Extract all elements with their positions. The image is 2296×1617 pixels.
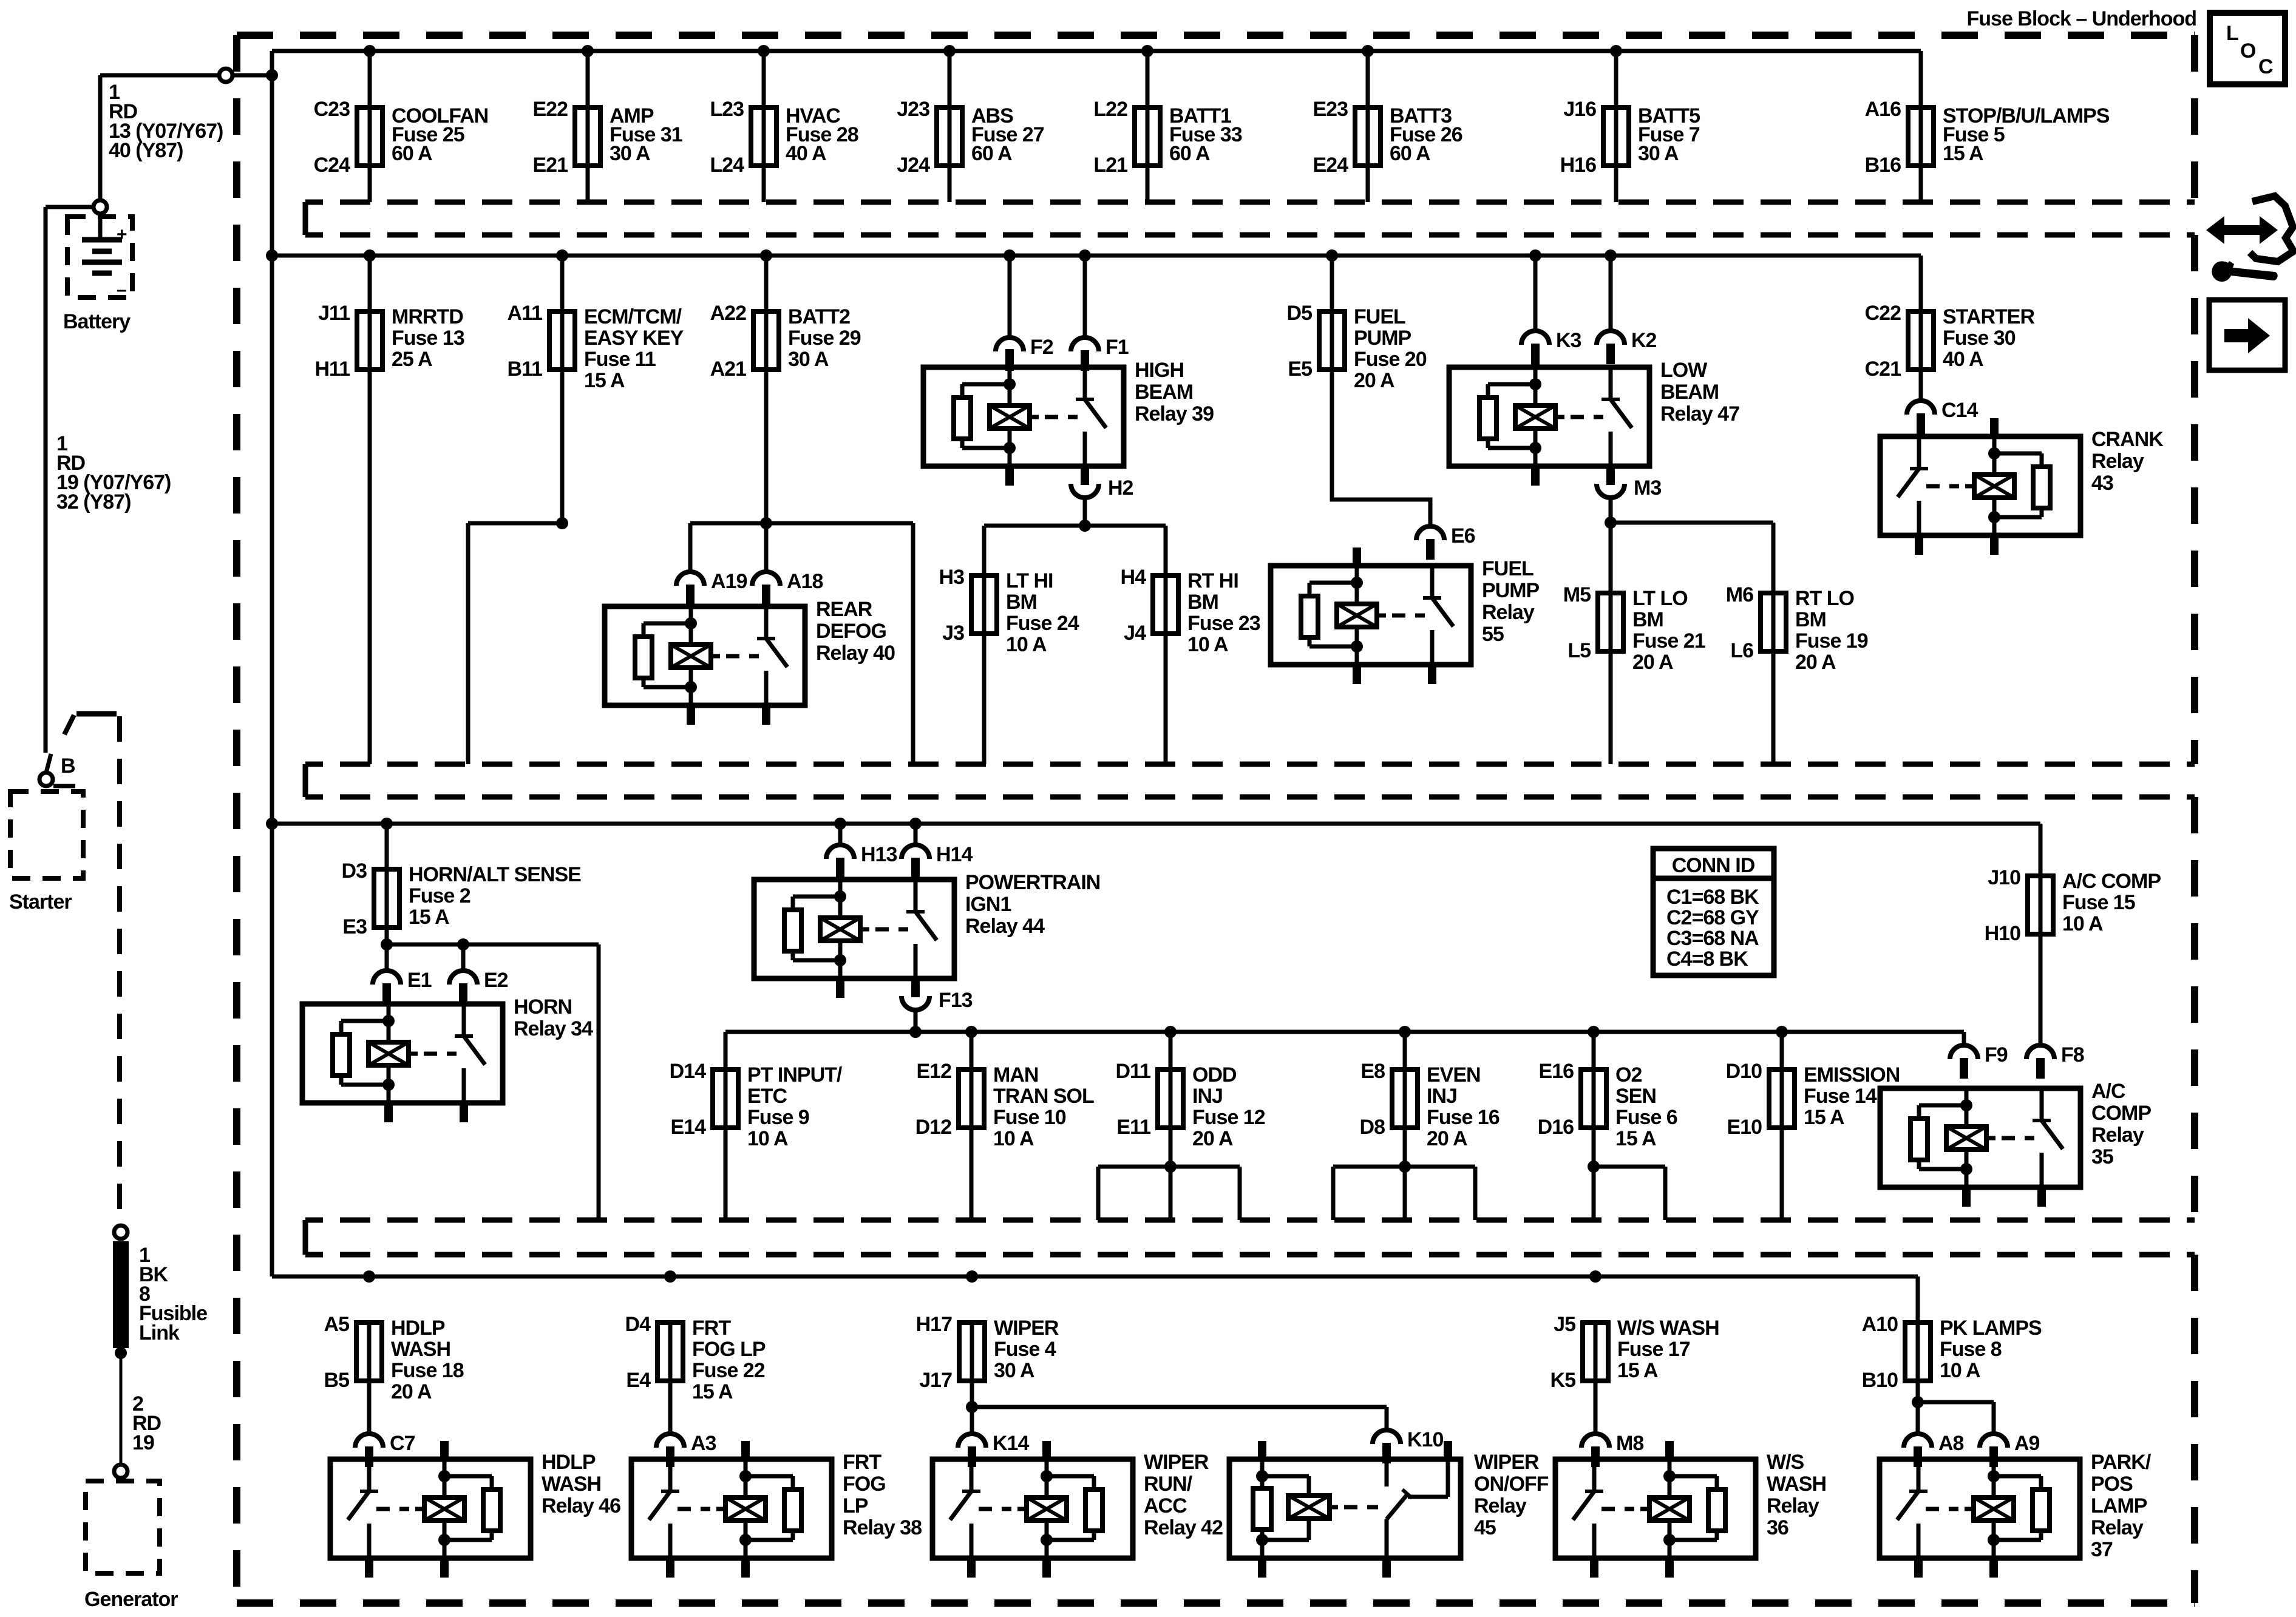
svg-text:Fuse 11: Fuse 11 xyxy=(584,348,656,371)
svg-text:TRAN SOL: TRAN SOL xyxy=(993,1085,1094,1108)
node bus2 x609 xyxy=(364,249,376,262)
svg-text:Fuse Block – Underhood: Fuse Block – Underhood xyxy=(1967,7,2197,30)
relay HORN Relay 34 xyxy=(302,995,593,1122)
connector F8 xyxy=(2026,1043,2084,1079)
connector A3 xyxy=(656,1432,716,1467)
wire EVEN INJ multi-terminal output xyxy=(1333,1128,1475,1220)
svg-text:40 (Y87): 40 (Y87) xyxy=(109,139,183,162)
svg-text:F9: F9 xyxy=(1985,1043,2008,1066)
svg-text:HDLP: HDLP xyxy=(391,1317,445,1340)
generator terminal xyxy=(114,1465,127,1478)
fuse Fuse 12 ODD INJ (D11/E11) xyxy=(1116,1032,1265,1150)
svg-text:J5: J5 xyxy=(1554,1313,1575,1336)
connector H14 xyxy=(902,843,973,878)
fuse Fuse 33 BATT1 (L22/L21) xyxy=(1093,51,1241,202)
fuse Fuse 27 ABS (J23/J24) xyxy=(897,51,1044,202)
node bus4 x608 xyxy=(363,1270,375,1283)
svg-text:H10: H10 xyxy=(1985,922,2020,945)
fuse Fuse 28 HVAC (L23/L24) xyxy=(710,51,858,202)
svg-text:15 A: 15 A xyxy=(409,906,449,929)
svg-text:E12: E12 xyxy=(917,1060,952,1083)
dashed bus band band 2 xyxy=(305,764,2195,797)
svg-text:Fuse 29: Fuse 29 xyxy=(788,327,861,350)
svg-text:Relay: Relay xyxy=(1482,601,1535,624)
node bus2 x1663 xyxy=(1004,249,1016,262)
svg-text:+: + xyxy=(117,225,127,245)
svg-text:ON/OFF: ON/OFF xyxy=(1474,1473,1549,1496)
svg-text:C14: C14 xyxy=(1941,399,1978,422)
fuse Fuse 23 RT HI BM (H4/J4) xyxy=(1121,566,1260,764)
relay PARK/POS LAMP Relay 37 xyxy=(1880,1451,2152,1578)
svg-text:WASH: WASH xyxy=(1767,1473,1826,1496)
svg-text:Fuse 13: Fuse 13 xyxy=(392,327,464,350)
svg-text:L21: L21 xyxy=(1093,154,1127,177)
svg-text:C: C xyxy=(2258,55,2273,78)
svg-text:LAMP: LAMP xyxy=(2091,1494,2147,1517)
node bus1 x1890 xyxy=(1141,45,1153,57)
svg-text:FOG LP: FOG LP xyxy=(692,1338,766,1361)
node bus4 x1601 xyxy=(966,1270,978,1283)
connector E6 xyxy=(1416,524,1475,560)
svg-text:FUEL: FUEL xyxy=(1354,305,1405,328)
relay HDLP WASH Relay 46 xyxy=(330,1441,620,1578)
svg-text:PT INPUT/: PT INPUT/ xyxy=(747,1063,843,1086)
svg-text:D16: D16 xyxy=(1538,1116,1574,1139)
svg-text:Relay 47: Relay 47 xyxy=(1660,402,1739,425)
svg-text:E1: E1 xyxy=(407,969,432,992)
svg-text:Relay: Relay xyxy=(2091,450,2144,473)
svg-text:D10: D10 xyxy=(1726,1060,1762,1083)
node bus1 x609 xyxy=(364,45,376,57)
svg-text:A18: A18 xyxy=(787,570,823,593)
wire BATT2 output distribution xyxy=(690,370,913,764)
svg-text:D12: D12 xyxy=(915,1116,951,1139)
svg-text:A10: A10 xyxy=(1862,1313,1898,1336)
svg-text:Relay 42: Relay 42 xyxy=(1144,1516,1223,1539)
fuse Fuse 29 BATT2 (A22/A21) xyxy=(710,256,861,381)
svg-text:30 A: 30 A xyxy=(788,348,829,371)
connector M8 xyxy=(1581,1432,1643,1467)
wire bus3 to H13/H14 xyxy=(840,824,915,845)
node bus3b x1508 xyxy=(909,1026,922,1038)
svg-text:10 A: 10 A xyxy=(747,1127,788,1150)
fusible link terminal xyxy=(114,1225,127,1239)
svg-text:ACC: ACC xyxy=(1144,1494,1187,1517)
wire A/C comp fuse to F8 xyxy=(2039,934,2043,1045)
wire label 1 RD 13/40 xyxy=(109,81,223,162)
svg-text:10 A: 10 A xyxy=(1940,1359,1980,1382)
svg-text:60 A: 60 A xyxy=(392,142,432,165)
svg-text:Fuse 15: Fuse 15 xyxy=(2062,891,2135,914)
fuse Fuse 5 STOP/B/U/LAMPS (A16/B16) xyxy=(1865,51,2110,202)
svg-text:PUMP: PUMP xyxy=(1354,327,1411,350)
svg-text:Fuse 16: Fuse 16 xyxy=(1427,1106,1500,1129)
svg-text:BEAM: BEAM xyxy=(1660,381,1719,404)
connector M3 xyxy=(1597,464,1661,500)
node bus2 left xyxy=(266,249,278,262)
svg-text:CRANK: CRANK xyxy=(2091,428,2164,451)
fuse Fuse 8 PK LAMPS (A10/B10) xyxy=(1862,1313,2042,1392)
node ODD INJ split xyxy=(1164,1161,1177,1173)
svg-text:A21: A21 xyxy=(710,358,746,381)
svg-text:E6: E6 xyxy=(1451,524,1475,547)
main feed vertical xyxy=(270,51,274,1276)
svg-text:HIGH: HIGH xyxy=(1135,359,1184,382)
svg-text:O2: O2 xyxy=(1615,1063,1642,1086)
generator xyxy=(84,1481,178,1611)
svg-text:MAN: MAN xyxy=(993,1063,1038,1086)
dashed bus band band 1 xyxy=(305,202,2195,235)
CONN ID table xyxy=(1653,849,1774,975)
wire M3 output to low beam fuses xyxy=(1611,498,1773,593)
fuse Fuse 26 BATT3 (E23/E24) xyxy=(1313,51,1462,202)
connector K2 xyxy=(1597,329,1657,364)
svg-text:E16: E16 xyxy=(1539,1060,1574,1083)
svg-text:10 A: 10 A xyxy=(993,1127,1034,1150)
svg-text:Fuse 21: Fuse 21 xyxy=(1632,629,1705,653)
svg-text:J16: J16 xyxy=(1563,98,1596,121)
wire battery to bus xyxy=(100,75,272,200)
node fusible link output xyxy=(115,1347,127,1359)
svg-text:Fuse 6: Fuse 6 xyxy=(1615,1106,1677,1129)
svg-text:B10: B10 xyxy=(1862,1369,1898,1392)
svg-text:Fuse 18: Fuse 18 xyxy=(391,1359,464,1382)
svg-text:J3: J3 xyxy=(942,622,964,645)
svg-text:C4=8 BK: C4=8 BK xyxy=(1666,947,1748,971)
relay FUEL PUMP Relay 55 xyxy=(1271,547,1540,684)
svg-text:HDLP: HDLP xyxy=(542,1451,596,1474)
fuse Fuse 7 BATT5 (J16/H16) xyxy=(1560,51,1700,202)
node bus1 x1564 xyxy=(943,45,956,57)
node bus3 x1384 xyxy=(834,818,846,830)
wire O2 SEN multi-terminal output xyxy=(1594,1128,1665,1220)
node battery feed junction xyxy=(266,69,278,81)
node bus2 x1262 xyxy=(760,249,772,262)
svg-text:C23: C23 xyxy=(314,98,350,121)
svg-text:MRRTD: MRRTD xyxy=(392,305,463,328)
fuse Fuse 11 ECM/TCM/EASY KEY (A11/B11) xyxy=(508,256,684,392)
connector F9 xyxy=(1950,1043,2008,1079)
svg-text:30 A: 30 A xyxy=(1638,142,1679,165)
svg-text:Relay: Relay xyxy=(2091,1516,2144,1539)
relay WIPER ON/OFF Relay 45 xyxy=(1229,1441,1549,1578)
svg-text:C2=68 GY: C2=68 GY xyxy=(1666,906,1759,929)
svg-text:15 A: 15 A xyxy=(1615,1127,1656,1150)
svg-text:20 A: 20 A xyxy=(1795,651,1836,674)
svg-text:D8: D8 xyxy=(1360,1116,1385,1139)
svg-text:K2: K2 xyxy=(1631,329,1657,352)
wire ECM fuse output xyxy=(468,370,562,764)
svg-text:10 A: 10 A xyxy=(1006,633,1047,656)
connector K10 xyxy=(1373,1428,1443,1463)
wire label 1 RD 19/32 xyxy=(56,432,171,514)
svg-text:20 A: 20 A xyxy=(1427,1127,1467,1150)
svg-text:D14: D14 xyxy=(670,1060,706,1083)
connector A19 xyxy=(676,570,747,605)
node E2 tap xyxy=(457,938,469,951)
body repair icon with wrench xyxy=(2206,196,2294,282)
fuse Fuse 16 EVEN INJ (E8/D8) xyxy=(1360,1032,1500,1150)
bus 3b ignition feed xyxy=(725,1032,1964,1070)
dashed feed wire to fusible link xyxy=(64,714,120,1218)
svg-text:LP: LP xyxy=(843,1494,868,1517)
svg-text:H2: H2 xyxy=(1108,476,1133,500)
wire bus2 to K3/K2 xyxy=(1535,256,1611,331)
svg-text:A9: A9 xyxy=(2014,1432,2040,1455)
svg-text:LOW: LOW xyxy=(1660,359,1708,382)
node EVEN INJ split xyxy=(1399,1161,1411,1173)
node M3 split xyxy=(1605,517,1617,529)
svg-text:STARTER: STARTER xyxy=(1943,305,2034,328)
svg-text:E11: E11 xyxy=(1116,1116,1150,1139)
svg-text:D4: D4 xyxy=(625,1313,651,1336)
node horn fuse split xyxy=(381,938,393,951)
wire F13 to ignition bus xyxy=(914,1010,918,1032)
svg-text:FOG: FOG xyxy=(843,1473,886,1496)
svg-text:BM: BM xyxy=(1795,608,1826,631)
svg-text:Fuse 24: Fuse 24 xyxy=(1006,612,1079,635)
svg-text:L23: L23 xyxy=(710,98,744,121)
svg-text:Relay: Relay xyxy=(1474,1494,1527,1517)
svg-text:Fuse 22: Fuse 22 xyxy=(692,1359,765,1382)
svg-text:20 A: 20 A xyxy=(391,1380,432,1403)
svg-text:IGN1: IGN1 xyxy=(965,893,1011,916)
svg-text:D11: D11 xyxy=(1116,1060,1151,1083)
node bus2 x926 xyxy=(556,249,568,262)
svg-text:Relay 46: Relay 46 xyxy=(542,1494,620,1517)
svg-text:Fuse 19: Fuse 19 xyxy=(1795,629,1868,653)
relay WIPER RUN/ACC Relay 42 xyxy=(932,1441,1223,1578)
svg-text:WASH: WASH xyxy=(542,1473,601,1496)
svg-text:O: O xyxy=(2240,39,2256,63)
node bus3b x1928 xyxy=(1164,1026,1177,1038)
connector E1 xyxy=(373,969,432,1004)
svg-text:Fuse 17: Fuse 17 xyxy=(1617,1338,1690,1361)
fuse Fuse 6 O2 SEN (E16/D16) xyxy=(1538,1032,1677,1150)
svg-text:30 A: 30 A xyxy=(610,142,650,165)
connector F13 xyxy=(902,977,973,1012)
connector A9 xyxy=(1980,1432,2040,1467)
node bus2 x2653 xyxy=(1605,249,1617,262)
svg-text:H3: H3 xyxy=(939,566,965,589)
svg-text:10 A: 10 A xyxy=(2062,912,2103,935)
relay W/S WASH Relay 36 xyxy=(1555,1441,1826,1578)
svg-text:A5: A5 xyxy=(324,1313,350,1336)
connector K14 xyxy=(958,1432,1029,1467)
svg-text:E23: E23 xyxy=(1313,98,1348,121)
node bus3b x2314 xyxy=(1399,1026,1411,1038)
dashed bus band band 3 xyxy=(305,1220,2195,1255)
svg-text:Fuse 8: Fuse 8 xyxy=(1940,1338,2002,1361)
svg-text:Battery: Battery xyxy=(63,310,131,333)
svg-text:DEFOG: DEFOG xyxy=(816,620,886,643)
svg-text:POS: POS xyxy=(2091,1473,2133,1496)
fuse Fuse 14 EMISSION (D10/E10) xyxy=(1726,1032,1900,1220)
battery positive terminal xyxy=(93,200,107,214)
fuse Fuse 22 FRT FOG LP (D4/E4) xyxy=(625,1313,766,1434)
connector C14 xyxy=(1907,399,1978,434)
inline connector on battery feed xyxy=(219,69,233,82)
svg-text:E4: E4 xyxy=(626,1369,651,1392)
svg-text:M6: M6 xyxy=(1726,583,1753,606)
svg-text:E22: E22 xyxy=(533,98,568,121)
fuse Fuse 18 HDLP WASH (A5/B5) xyxy=(324,1313,464,1434)
node bus1 x968 xyxy=(582,45,594,57)
svg-text:Starter: Starter xyxy=(9,890,72,914)
svg-text:B5: B5 xyxy=(324,1369,350,1392)
svg-text:K10: K10 xyxy=(1407,1428,1443,1451)
svg-text:WIPER: WIPER xyxy=(1474,1451,1539,1474)
svg-text:EVEN: EVEN xyxy=(1427,1063,1481,1086)
svg-text:LT LO: LT LO xyxy=(1632,587,1688,610)
wire wiper fuse output xyxy=(972,1381,1387,1434)
bus 4 xyxy=(272,1276,1918,1323)
svg-text:WIPER: WIPER xyxy=(994,1317,1059,1340)
svg-text:J4: J4 xyxy=(1124,622,1146,645)
svg-text:RT HI: RT HI xyxy=(1187,569,1238,592)
connector H13 xyxy=(826,843,897,878)
svg-text:15 A: 15 A xyxy=(1943,142,1983,165)
svg-text:H17: H17 xyxy=(916,1313,952,1336)
svg-text:Relay 38: Relay 38 xyxy=(843,1516,922,1539)
svg-text:45: 45 xyxy=(1474,1516,1496,1539)
svg-text:E21: E21 xyxy=(533,154,568,177)
svg-text:Generator: Generator xyxy=(84,1588,178,1611)
svg-text:40 A: 40 A xyxy=(1943,348,1983,371)
svg-text:BATT2: BATT2 xyxy=(788,305,850,328)
connector A8 xyxy=(1904,1432,1964,1467)
svg-text:COMP: COMP xyxy=(2091,1102,2151,1125)
wire battery to starter xyxy=(46,207,93,773)
svg-text:A16: A16 xyxy=(1865,98,1901,121)
svg-text:Fuse 23: Fuse 23 xyxy=(1187,612,1260,635)
svg-text:K14: K14 xyxy=(993,1432,1029,1455)
svg-text:ECM/TCM/: ECM/TCM/ xyxy=(584,305,682,328)
svg-text:J11: J11 xyxy=(318,302,350,325)
fuse Fuse 30 STARTER (C22/C21) xyxy=(1865,256,2035,381)
svg-text:A19: A19 xyxy=(711,570,747,593)
svg-text:A8: A8 xyxy=(1938,1432,1964,1455)
svg-text:INJ: INJ xyxy=(1427,1085,1457,1108)
svg-text:B: B xyxy=(61,754,75,778)
connector K3 xyxy=(1521,329,1581,364)
svg-text:K3: K3 xyxy=(1556,329,1581,352)
relay REAR DEFOG Relay 40 xyxy=(605,598,895,725)
fusible link 1 BK 8 xyxy=(113,1241,207,1348)
wire bus2 to F2/F1 xyxy=(1010,256,1085,337)
svg-text:L: L xyxy=(2226,22,2238,45)
fuse Fuse 15 A/C COMP (J10/H10) xyxy=(1985,866,2161,945)
bus 1 xyxy=(272,51,1921,107)
node bus2 x2194 xyxy=(1326,249,1338,262)
fuse Fuse 21 LT LO BM (M5/L5) xyxy=(1563,583,1705,764)
svg-text:15 A: 15 A xyxy=(692,1380,733,1403)
svg-text:Relay 34: Relay 34 xyxy=(514,1017,593,1040)
svg-text:LT HI: LT HI xyxy=(1006,569,1053,592)
svg-text:J23: J23 xyxy=(897,98,929,121)
wire H2 output to headlamp fuses xyxy=(984,498,1166,575)
node bus3b x2625 xyxy=(1588,1026,1600,1038)
svg-text:J10: J10 xyxy=(1988,866,2020,889)
svg-text:A/C COMP: A/C COMP xyxy=(2062,870,2161,893)
svg-text:C22: C22 xyxy=(1865,302,1901,325)
wire 2 RD 19 to generator xyxy=(121,1348,161,1464)
relay POWERTRAIN IGN1 Relay 44 xyxy=(754,861,1100,998)
node bus4 x2628 xyxy=(1589,1270,1601,1283)
svg-text:37: 37 xyxy=(2091,1538,2113,1561)
node ECM output corner xyxy=(556,517,568,529)
bus 3 xyxy=(272,824,2040,876)
fuse Fuse 25 COOLFAN (C23/C24) xyxy=(314,51,489,202)
svg-text:L24: L24 xyxy=(710,154,744,177)
svg-text:Fuse 20: Fuse 20 xyxy=(1354,348,1427,371)
node bus1 x2662 xyxy=(1610,45,1622,57)
node bus3 x637 xyxy=(381,818,393,830)
svg-text:HORN/ALT SENSE: HORN/ALT SENSE xyxy=(409,863,581,886)
node bus1 x2253 xyxy=(1362,45,1374,57)
node bus2 x2529 xyxy=(1529,249,1541,262)
svg-text:C24: C24 xyxy=(314,154,350,177)
svg-text:RUN/: RUN/ xyxy=(1144,1473,1193,1496)
svg-text:W/S: W/S xyxy=(1767,1451,1804,1474)
node bus3 x1508 xyxy=(909,818,922,830)
svg-text:E8: E8 xyxy=(1360,1060,1385,1083)
fuse Fuse 17 W/S WASH (J5/K5) xyxy=(1550,1313,1719,1434)
connector H2 xyxy=(1071,464,1133,500)
svg-text:M3: M3 xyxy=(1634,476,1661,500)
svg-text:ODD: ODD xyxy=(1192,1063,1237,1086)
LOC reference box xyxy=(2210,13,2285,84)
svg-text:15 A: 15 A xyxy=(1617,1359,1658,1382)
svg-text:BM: BM xyxy=(1187,591,1218,614)
svg-text:15 A: 15 A xyxy=(584,369,625,392)
connector E2 xyxy=(449,969,508,1004)
svg-text:E2: E2 xyxy=(484,969,508,992)
node bus1 x1258 xyxy=(758,45,770,57)
svg-text:A22: A22 xyxy=(710,302,746,325)
node bus3 left xyxy=(266,818,278,830)
svg-text:F13: F13 xyxy=(939,989,973,1012)
svg-text:EMISSION: EMISSION xyxy=(1804,1063,1900,1086)
relay CRANK Relay 43 xyxy=(1880,418,2164,555)
svg-text:L6: L6 xyxy=(1730,639,1753,662)
svg-text:M8: M8 xyxy=(1616,1432,1643,1455)
svg-text:Relay 40: Relay 40 xyxy=(816,642,895,665)
svg-text:60 A: 60 A xyxy=(971,142,1012,165)
relay FRT FOG LP Relay 38 xyxy=(631,1441,922,1578)
svg-text:D3: D3 xyxy=(342,859,367,883)
svg-text:20 A: 20 A xyxy=(1354,369,1394,392)
connector F1 xyxy=(1071,336,1129,371)
svg-text:H14: H14 xyxy=(936,843,973,866)
svg-text:36: 36 xyxy=(1767,1516,1788,1539)
fuse Fuse 31 AMP (E22/E21) xyxy=(533,51,682,202)
svg-text:Relay 44: Relay 44 xyxy=(965,915,1045,938)
svg-text:FUEL: FUEL xyxy=(1482,557,1533,580)
svg-text:Relay 39: Relay 39 xyxy=(1135,402,1214,425)
connector C7 xyxy=(355,1432,415,1467)
svg-text:19: 19 xyxy=(132,1431,154,1454)
svg-text:REAR: REAR xyxy=(816,598,872,621)
svg-text:SEN: SEN xyxy=(1615,1085,1656,1108)
fuse Fuse 4 WIPER (H17/J17) xyxy=(916,1313,1059,1392)
svg-text:Fuse 10: Fuse 10 xyxy=(993,1106,1066,1129)
svg-text:32 (Y87): 32 (Y87) xyxy=(56,490,131,514)
svg-text:C21: C21 xyxy=(1865,358,1901,381)
node BATT2 output junction xyxy=(760,517,772,529)
svg-text:C7: C7 xyxy=(390,1432,415,1455)
node bus3b x1600 xyxy=(965,1026,977,1038)
